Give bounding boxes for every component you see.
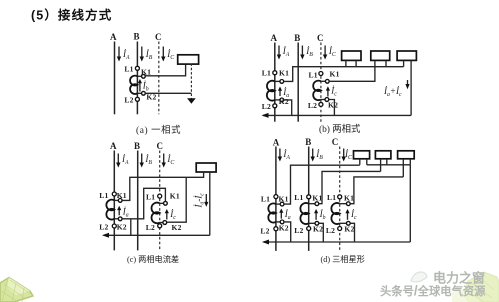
svg-text:İb: İb — [319, 209, 326, 221]
terminal K1 — [325, 79, 329, 83]
terminal K1 — [346, 202, 350, 206]
svg-text:A: A — [271, 33, 278, 43]
ammeter P2 right leg — [385, 60, 387, 66]
terminal L1 — [158, 194, 162, 198]
ammeter P1 legs — [346, 60, 356, 66]
ammeter P2 — [375, 151, 391, 159]
svg-text:C: C — [317, 33, 324, 43]
wire phase A — [113, 151, 115, 251]
svg-text:İA: İA — [282, 149, 290, 161]
svg-text:İA: İA — [121, 154, 129, 166]
svg-text:İC: İC — [166, 154, 174, 166]
svg-text:İc: İc — [350, 209, 357, 221]
svg-text:(b) 两相式: (b) 两相式 — [319, 123, 361, 135]
terminal L1 — [274, 195, 278, 199]
wire phase B — [137, 151, 139, 251]
terminal L2 — [112, 224, 116, 228]
wire phase B — [297, 43, 299, 122]
wire Ic to meter3 — [350, 177, 403, 204]
svg-text:L2: L2 — [146, 223, 155, 232]
svg-text:L2: L2 — [124, 95, 133, 104]
wire bottom return bus — [104, 234, 210, 236]
svg-text:İB: İB — [145, 49, 153, 61]
svg-text:İc: İc — [169, 209, 176, 221]
svg-text:A: A — [273, 137, 280, 147]
svg-text:L1: L1 — [124, 64, 133, 73]
ammeter P2 — [371, 51, 390, 60]
wire phase C (dashed) — [158, 42, 160, 115]
svg-text:L1: L1 — [261, 194, 270, 203]
CT7 on phase B: coil — [300, 203, 308, 224]
terminal K1 — [280, 202, 284, 206]
wire K2C drop — [329, 100, 335, 116]
ammeter P1 legs — [360, 159, 367, 165]
pin stub K2 — [114, 218, 120, 220]
wire phase C (dashed) — [159, 151, 161, 251]
pin stub K2 — [340, 222, 349, 224]
pin stub K2 — [160, 222, 165, 224]
ammeter PA — [178, 55, 199, 64]
current arrow IC — [161, 47, 165, 62]
ground arrow left — [262, 240, 269, 245]
wire K2A cross link to K1C — [122, 188, 165, 219]
current arrow IB — [140, 47, 144, 62]
wire meter to ground — [190, 64, 192, 99]
secondary current arrow Ia — [279, 209, 283, 219]
ammeter P1 — [354, 151, 370, 159]
terminal K2 — [118, 217, 122, 221]
CT1 coil — [130, 76, 137, 94]
pin stub K1 — [276, 203, 282, 205]
terminal L2 — [135, 97, 139, 101]
wire right return bus — [409, 165, 411, 242]
wire K1A riser to meter — [122, 172, 204, 200]
svg-text:K2: K2 — [344, 225, 354, 234]
svg-text:K2: K2 — [328, 101, 338, 110]
current arrow IC — [342, 149, 346, 162]
pin stub K2 — [137, 92, 143, 94]
watermark leaf bottom-left — [0, 278, 33, 302]
terminal L1 — [319, 72, 323, 76]
wire K2C drop — [350, 223, 354, 242]
svg-text:(d) 三相星形: (d) 三相星形 — [321, 254, 365, 264]
ground arrow left — [262, 113, 269, 118]
terminal K2 — [325, 98, 329, 102]
terminal K1 — [280, 80, 284, 84]
svg-text:C: C — [155, 32, 162, 42]
terminal L2 — [273, 104, 277, 108]
pin stub K2 — [276, 221, 282, 223]
ammeter P1 — [342, 51, 361, 60]
svg-text:L1: L1 — [262, 69, 271, 78]
pin stub K1 — [321, 80, 327, 82]
svg-text:A: A — [110, 141, 117, 151]
wire K2C riser to meter wire — [167, 177, 187, 222]
svg-text:L2: L2 — [260, 227, 269, 236]
current arrow IB — [140, 154, 144, 168]
secondary current arrow Ia — [117, 206, 121, 216]
pin stub K2 — [275, 99, 282, 101]
terminal L1 — [135, 66, 139, 70]
terminal K1 — [118, 199, 122, 203]
svg-text:İa: İa — [284, 209, 291, 221]
svg-text:K2: K2 — [117, 223, 127, 232]
terminal L1 — [307, 195, 311, 199]
svg-text:L1: L1 — [327, 193, 336, 202]
wire meter2 left leg drop to K1C — [329, 60, 375, 81]
svg-text:İa+İc: İa+İc — [383, 86, 402, 98]
wire K2A drop — [284, 100, 292, 116]
svg-text:B: B — [134, 141, 140, 151]
wire phase C (dashed) — [339, 147, 341, 251]
svg-text:K1: K1 — [330, 70, 340, 79]
wire K2B drop — [319, 223, 324, 242]
svg-text:L2: L2 — [262, 102, 271, 111]
svg-text:C: C — [332, 137, 339, 147]
svg-text:L1: L1 — [309, 70, 318, 79]
terminal K2 — [163, 221, 167, 225]
terminal L1 — [338, 195, 342, 199]
ammeter PA — [196, 163, 216, 172]
svg-text:İB: İB — [315, 149, 323, 161]
svg-text:L1: L1 — [146, 193, 155, 202]
svg-text:A: A — [110, 32, 117, 42]
terminal L1 — [273, 71, 277, 75]
secondary current arrow Ic — [165, 209, 169, 220]
wire bottom return bus — [263, 114, 411, 116]
terminal K2 — [280, 220, 284, 224]
svg-text:B: B — [294, 33, 300, 43]
pin stub K2 — [321, 99, 327, 101]
svg-text:K1: K1 — [117, 191, 127, 200]
svg-text:İb: İb — [142, 81, 149, 93]
svg-text:K2: K2 — [279, 224, 289, 233]
terminal K1 — [142, 74, 146, 78]
terminal K2 — [142, 91, 146, 95]
svg-text:K2: K2 — [313, 225, 323, 234]
current arrow IA — [277, 46, 281, 60]
pin stub K1 — [160, 202, 166, 204]
svg-text:头条号/全球电气资源: 头条号/全球电气资源 — [380, 283, 486, 298]
CT8 on phase C: coil — [331, 203, 339, 224]
svg-text:K1: K1 — [279, 194, 289, 203]
secondary current arrow Ib — [138, 79, 142, 92]
svg-text:İc: İc — [330, 86, 337, 98]
svg-text:(5）接线方式: (5）接线方式 — [31, 8, 112, 23]
svg-text:İC: İC — [344, 149, 352, 161]
current arrow IC — [162, 154, 166, 168]
secondary current arrow Ib — [314, 209, 318, 220]
svg-text:(a) 一相式: (a) 一相式 — [136, 124, 181, 136]
ammeter P2 legs — [381, 159, 387, 172]
pin stub K1 — [340, 203, 349, 205]
secondary current arrow Ia — [278, 87, 282, 97]
svg-text:K1: K1 — [279, 69, 289, 78]
terminal L2 — [274, 227, 278, 231]
terminal L2 — [158, 224, 162, 228]
svg-text:K1: K1 — [344, 194, 354, 203]
CT4 on phase A: coil — [106, 200, 114, 220]
wire Ia phase to meter1 — [284, 165, 360, 204]
secondary current arrow Ic — [326, 86, 330, 96]
current arrow IA — [116, 154, 120, 168]
wire K1 to meter — [145, 64, 185, 76]
terminal L2 — [307, 227, 311, 231]
svg-text:B: B — [305, 137, 311, 147]
svg-text:L2: L2 — [308, 101, 317, 110]
ammeter P3 — [398, 151, 415, 159]
wire phase C (dashed) — [320, 43, 322, 122]
terminal K1 — [315, 202, 319, 206]
svg-text:L2: L2 — [294, 226, 303, 235]
CT2 on phase A: coil — [267, 81, 275, 101]
ground arrow left — [102, 233, 109, 238]
svg-text:K1: K1 — [312, 194, 322, 203]
wire phase B — [136, 42, 138, 115]
svg-text:İA: İA — [122, 49, 130, 61]
svg-text:B: B — [134, 32, 140, 42]
watermark leaf bottom-right — [452, 272, 499, 302]
current arrow IA — [278, 149, 282, 162]
current arrow IB — [311, 149, 315, 162]
terminal K2 — [280, 98, 284, 102]
wire phase A — [274, 43, 276, 122]
pin stub K1 — [137, 75, 143, 77]
secondary current arrow Ic — [345, 209, 349, 220]
wire K2 to ground wire — [145, 92, 191, 94]
terminal K1 — [164, 201, 168, 205]
wire phase A — [275, 147, 277, 251]
pin stub K1 — [309, 203, 317, 205]
ammeter P3 legs — [403, 159, 410, 177]
svg-text:电力之窗: 电力之窗 — [433, 271, 485, 286]
svg-text:İB: İB — [305, 46, 313, 58]
wire meter3 right leg to right bus — [410, 60, 412, 115]
difference current arrow Ia-Ic — [204, 194, 208, 207]
current arrow IB — [300, 46, 304, 60]
CT3 on phase C: coil — [313, 81, 321, 101]
wire K2A drop junction — [130, 219, 132, 236]
current arrow IA — [117, 47, 121, 62]
svg-text:L1: L1 — [99, 191, 108, 200]
pin stub K2 — [309, 222, 317, 224]
current arrow IC — [323, 46, 327, 60]
pin stub K1 — [114, 199, 120, 201]
svg-text:İB: İB — [144, 154, 152, 166]
wire phase A — [114, 42, 116, 115]
wire phase B — [308, 147, 310, 251]
svg-text:İa: İa — [122, 206, 129, 218]
terminal L2 — [338, 227, 342, 231]
CT5 on phase C: coil — [152, 203, 160, 224]
ground symbol — [187, 98, 196, 104]
svg-text:K2: K2 — [172, 223, 182, 232]
CT6 on phase A: coil — [268, 203, 276, 222]
ammeter P3 left leg — [403, 60, 405, 66]
terminal L2 — [319, 102, 323, 106]
wire K2A drop — [284, 222, 291, 242]
svg-text:İC: İC — [328, 46, 336, 58]
svg-text:L1: L1 — [294, 193, 303, 202]
svg-text:C: C — [157, 141, 164, 151]
svg-text:İA: İA — [282, 46, 290, 58]
wire bottom return bus — [264, 241, 411, 243]
ammeter P3 — [397, 51, 416, 60]
wire meters right-leg bus — [367, 164, 411, 166]
svg-text:L2: L2 — [326, 226, 335, 235]
svg-text:L2: L2 — [99, 223, 108, 232]
terminal K2 — [346, 221, 350, 225]
svg-text:K1: K1 — [170, 192, 180, 201]
wire Ib to meter2 — [319, 171, 381, 203]
pin stub K1 — [275, 80, 282, 82]
wire K1A riser to meter bus — [284, 67, 404, 82]
svg-text:İC: İC — [166, 49, 174, 61]
watermark icon — [411, 272, 427, 282]
combined current arrow Ia+Ic — [405, 80, 409, 89]
wire meter right drop — [209, 172, 211, 235]
terminal K2 — [315, 221, 319, 225]
svg-text:İa-İc: İa-İc — [194, 193, 206, 209]
terminal L1 — [112, 192, 116, 196]
svg-text:(c) 两相电流差: (c) 两相电流差 — [127, 254, 179, 264]
